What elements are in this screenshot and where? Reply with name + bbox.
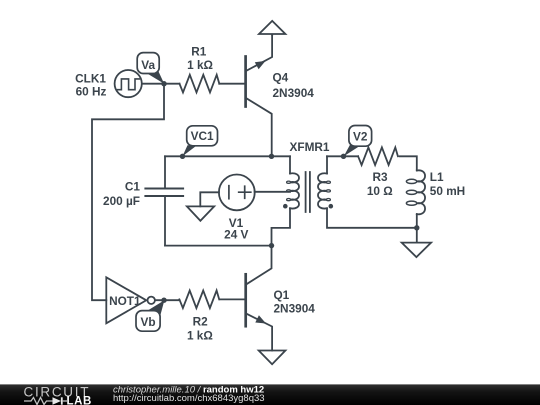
svg-text:CLK1: CLK1: [75, 71, 106, 85]
transformer phase dot secondary: [329, 204, 334, 209]
wire loop bottom: [165, 245, 272, 247]
svg-text:NOT1: NOT1: [109, 294, 141, 308]
flag Vb: [136, 300, 164, 331]
svg-text:Q4: Q4: [273, 71, 289, 85]
svg-text:Vb: Vb: [140, 315, 155, 329]
transistor Q4: [246, 34, 273, 156]
resistor R1: [180, 75, 220, 93]
wire V1 minus stub: [200, 192, 219, 206]
flag Va: [137, 53, 164, 84]
svg-text:VC1: VC1: [191, 129, 214, 143]
svg-text:24 V: 24 V: [224, 228, 248, 242]
svg-text:2N3904: 2N3904: [273, 86, 315, 100]
wire loop left side: [164, 156, 166, 188]
inverter NOT1: [106, 277, 155, 323]
svg-text:http://circuitlab.com/chx6843y: http://circuitlab.com/chx6843yg8q33: [113, 393, 265, 404]
wire NOT1 to R2: [155, 299, 180, 301]
wire secondary top: [327, 155, 358, 157]
label Q1 2N3904: [274, 288, 316, 316]
svg-text:LAB: LAB: [67, 396, 92, 405]
power arrow (supply): [259, 21, 285, 35]
inductor L1: [406, 170, 425, 228]
node bottom dot: [269, 243, 274, 248]
footer text: [113, 384, 265, 404]
flag V2: [344, 126, 372, 157]
svg-text:R2: R2: [193, 314, 209, 328]
wire feedback from Va: [92, 84, 164, 301]
node collector Q4 dot: [269, 154, 274, 159]
svg-text:Q1: Q1: [274, 288, 290, 302]
wire V1 plus to transformer tap: [255, 191, 290, 193]
transformer XFMR1 secondary: [318, 156, 417, 228]
node Vb dot: [161, 298, 166, 303]
svg-text:R1: R1: [191, 45, 207, 59]
wire R3 to L1: [400, 156, 417, 170]
ground L1: [402, 243, 431, 258]
node L1 bottom dot: [414, 225, 419, 230]
label R1 1 kOhm: [187, 45, 213, 72]
wire R2 to Q1 base: [220, 298, 246, 300]
svg-text:V2: V2: [353, 130, 368, 144]
svg-text:C1: C1: [125, 180, 141, 194]
voltage source V1: [219, 175, 255, 211]
svg-text:XFMR1: XFMR1: [290, 140, 330, 154]
label CLK1 60 Hz: [75, 71, 106, 98]
svg-text:L1: L1: [430, 170, 444, 184]
logo CIRCUIT LAB: [24, 384, 92, 405]
clock source CLK1: [115, 70, 142, 97]
label Q4 2N3904: [273, 71, 315, 100]
label R2 1 kOhm: [187, 314, 213, 342]
svg-text:10 Ω: 10 Ω: [367, 184, 393, 198]
svg-text:200 µF: 200 µF: [103, 194, 140, 208]
label NOT1: [109, 294, 141, 308]
wire top rail VC1: [165, 155, 290, 157]
ground Q1: [259, 351, 286, 365]
node V2 dot: [341, 154, 346, 159]
transformer core: [306, 172, 310, 212]
svg-text:1 kΩ: 1 kΩ: [187, 58, 213, 72]
wire clock to R1: [143, 83, 180, 85]
transformer XFMR1 primary: [272, 156, 300, 245]
svg-text:60 Hz: 60 Hz: [76, 85, 107, 99]
resistor R3: [358, 147, 398, 165]
wire L1 to ground: [416, 228, 418, 243]
footer bar: [0, 384, 540, 405]
svg-text:R3: R3: [372, 170, 388, 184]
transformer phase dot primary: [283, 204, 288, 209]
wire R1 to Q4 base: [219, 83, 245, 85]
svg-text:1 kΩ: 1 kΩ: [187, 328, 213, 342]
ground V1: [187, 206, 214, 220]
label XFMR1: [290, 140, 330, 154]
svg-text:2N3904: 2N3904: [274, 302, 316, 316]
resistor R2: [179, 291, 219, 309]
flag VC1: [183, 126, 218, 156]
node Va dot: [161, 81, 166, 86]
svg-text:50 mH: 50 mH: [430, 184, 465, 198]
transistor Q1: [246, 246, 272, 351]
label V1 24 V: [224, 216, 248, 242]
label R3 10 Ohm: [367, 170, 393, 198]
label L1 50 mH: [430, 170, 465, 198]
node VC1 dot: [180, 154, 185, 159]
svg-text:Va: Va: [141, 58, 155, 72]
capacitor C1: [145, 189, 183, 246]
label C1 200uF: [103, 180, 140, 208]
